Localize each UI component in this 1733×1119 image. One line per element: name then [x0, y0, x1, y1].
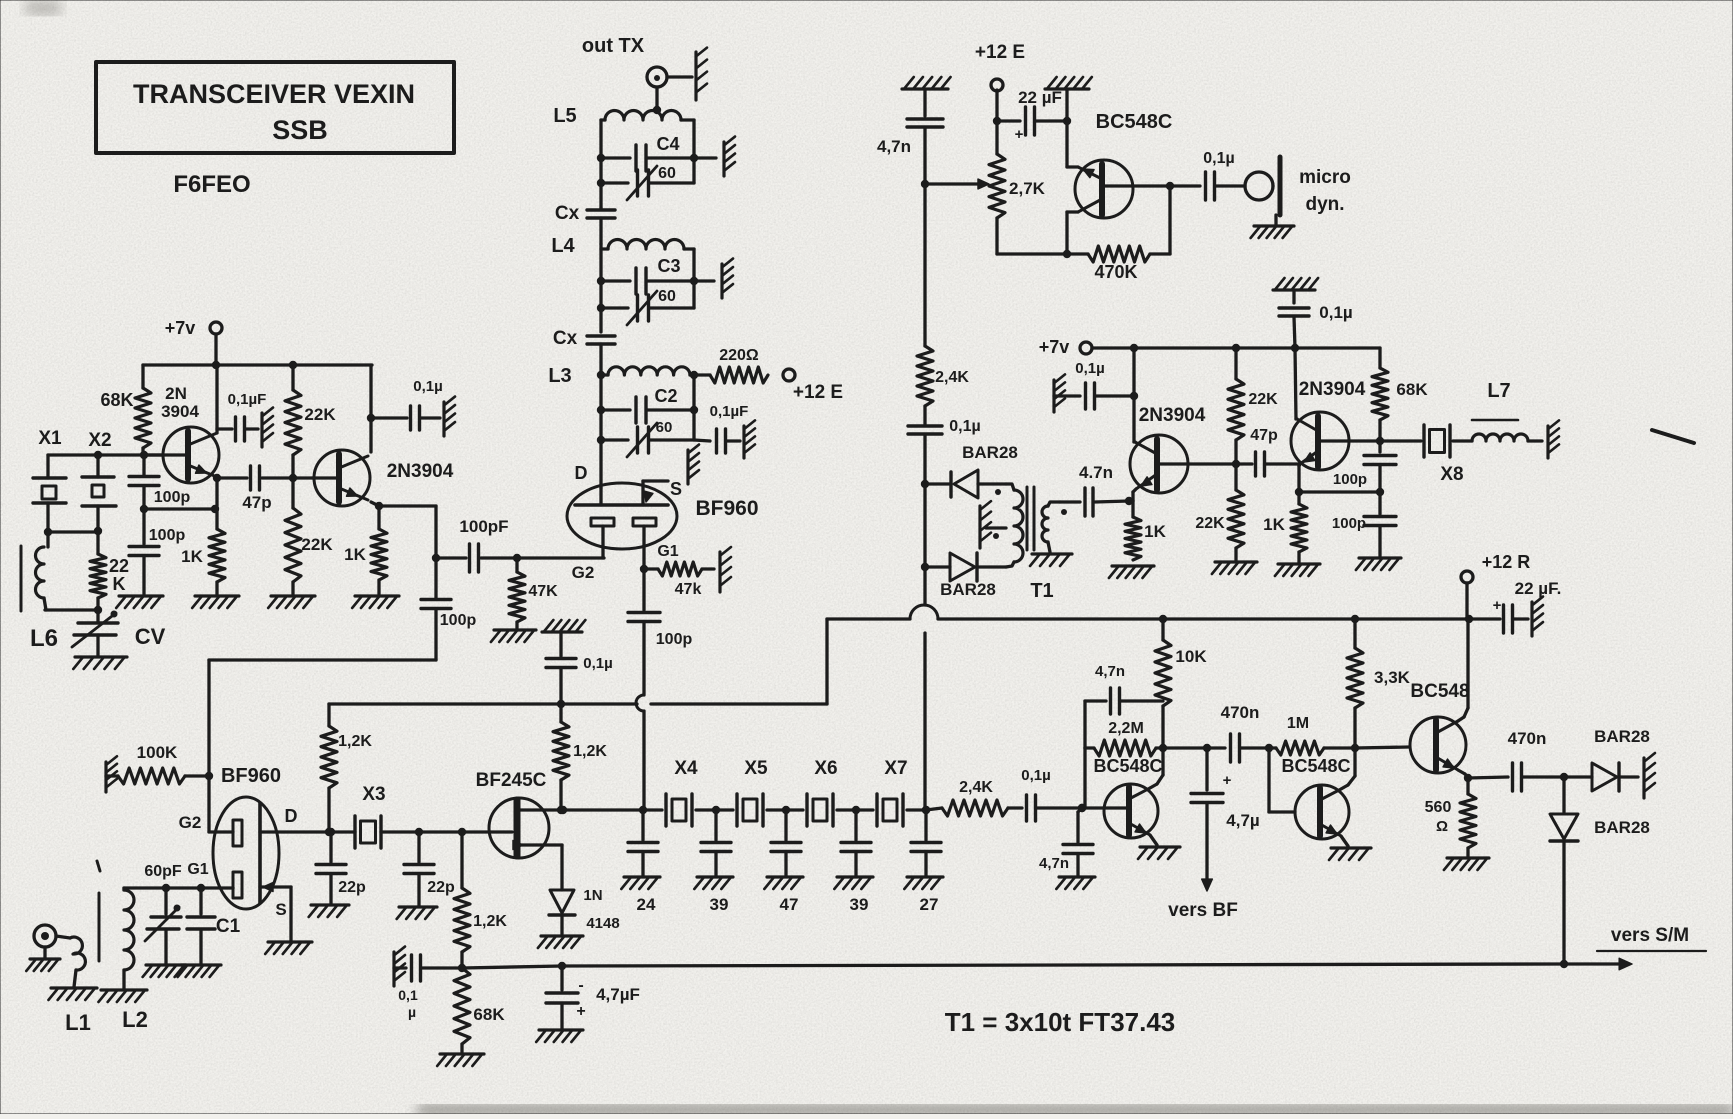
svg-text:L3: L3	[548, 365, 571, 387]
svg-text:2,7K: 2,7K	[1009, 179, 1046, 198]
svg-text:BAR28: BAR28	[1594, 727, 1650, 746]
transistor Q9 BC548C if	[1093, 756, 1162, 838]
capacitor 4,7uF	[536, 966, 640, 1042]
wire Q6 collector	[1063, 212, 1078, 258]
capacitor 39 shunt b	[834, 810, 873, 914]
resistor 1,2K rx	[321, 704, 372, 836]
resistor 68K rx	[437, 968, 505, 1066]
svg-text:BAR28: BAR28	[962, 443, 1018, 462]
resistor 22K bfo up	[1228, 348, 1278, 464]
tank right rail L5	[690, 120, 698, 183]
svg-text:X5: X5	[744, 758, 768, 779]
svg-text:+: +	[576, 1003, 585, 1020]
U1 drain lead	[599, 488, 602, 505]
terminal +7v O	[1039, 337, 1092, 357]
terminal +12R	[1461, 552, 1530, 619]
svg-text:+7v: +7v	[1039, 337, 1070, 357]
svg-text:3904: 3904	[161, 402, 199, 421]
crystal X1	[33, 455, 66, 536]
wire Q7 collector	[1130, 344, 1138, 442]
crystal X5	[712, 758, 786, 826]
capacitor 0,1u rx	[394, 947, 462, 1020]
resistor 10K	[1155, 619, 1207, 752]
label 60pF	[144, 863, 182, 880]
resistor 2,2M	[1085, 720, 1163, 756]
transistor Q10 BC548C af	[1281, 756, 1350, 839]
svg-text:0,1: 0,1	[398, 987, 418, 1003]
svg-text:K: K	[113, 574, 126, 594]
wire terminal to gnd	[667, 48, 707, 100]
transformer T1 tap	[980, 501, 1006, 548]
wire g1 cap hop	[636, 695, 644, 810]
trimmer 60 c4	[601, 165, 694, 200]
svg-text:560: 560	[1425, 799, 1452, 816]
svg-text:100p: 100p	[154, 489, 191, 506]
capacitor 47p bfo	[1236, 427, 1299, 476]
wire Q2 emitter	[371, 502, 383, 529]
svg-text:470n: 470n	[1221, 703, 1260, 722]
svg-text:4,7n: 4,7n	[1095, 663, 1125, 680]
wire Q1 collector	[215, 365, 218, 433]
svg-text:39: 39	[710, 895, 729, 914]
svg-text:+: +	[1223, 772, 1232, 789]
wire to TX mixer G2	[517, 556, 604, 559]
svg-text:+12 E: +12 E	[793, 382, 843, 403]
capacitor 47 shunt	[764, 810, 803, 914]
svg-text:47K: 47K	[528, 583, 558, 600]
wire C4 gnd	[694, 137, 735, 176]
svg-text:S: S	[275, 900, 286, 919]
transformer T1 core	[1027, 487, 1034, 550]
resistor 22K lower q2	[268, 478, 333, 608]
capacitor 47p coupling	[217, 466, 312, 512]
capacitor 100p feedback1	[129, 455, 190, 513]
terminal +12E tx	[783, 369, 843, 403]
svg-text:0,1µ: 0,1µ	[1319, 303, 1352, 322]
svg-text:G2: G2	[179, 813, 202, 832]
svg-text:vers BF: vers BF	[1168, 900, 1238, 921]
mosfet U1 BF960 tx	[567, 463, 759, 549]
inductor L6	[30, 532, 58, 652]
Q5 source wire	[513, 841, 562, 889]
Q5 drain wire	[520, 806, 647, 814]
resistor 1K q1	[181, 529, 239, 608]
capacitor 100p fb1	[1333, 441, 1396, 496]
wire base Q1	[48, 451, 162, 459]
resistor 1,2K det	[553, 704, 607, 814]
capacitor 470n b	[1468, 729, 1568, 791]
svg-text:X6: X6	[814, 758, 837, 779]
terminal +12E bfo	[975, 42, 1025, 125]
wire Q9 emitter gnd	[1138, 835, 1180, 859]
transistor Q6 BC548C mic	[1075, 111, 1172, 218]
svg-text:68K: 68K	[1396, 380, 1428, 399]
svg-text:0,1µF: 0,1µF	[228, 391, 267, 408]
resistor 2,4K if	[926, 779, 1008, 816]
resistor 220ohm	[694, 347, 768, 383]
tank left rail	[597, 120, 605, 208]
wire C3 gnd	[694, 259, 733, 298]
svg-text:C3: C3	[657, 256, 680, 276]
svg-text:+7v: +7v	[165, 318, 196, 338]
wire lo to rx mixer	[205, 660, 436, 832]
diode D3 BAR28	[1564, 727, 1655, 798]
resistor 3,3K	[1347, 619, 1411, 748]
crystal X7	[852, 758, 926, 826]
capacitor 0,1u bfo2	[1054, 360, 1134, 412]
svg-text:3,3K: 3,3K	[1374, 668, 1411, 687]
svg-text:22 µF: 22 µF	[1018, 88, 1062, 107]
svg-text:X7: X7	[884, 758, 907, 779]
svg-text:470K: 470K	[1094, 262, 1137, 282]
wire Q2 out	[379, 506, 440, 562]
wire Q11 collector	[1458, 619, 1468, 721]
wire Q9 collector	[1150, 748, 1163, 788]
svg-text:4148: 4148	[586, 915, 619, 932]
capacitor 22p b	[397, 828, 455, 919]
crystal X3	[331, 784, 419, 848]
svg-text:0,1µ: 0,1µ	[1203, 150, 1234, 167]
wire Q2 base	[312, 476, 339, 479]
svg-text:2N3904: 2N3904	[1139, 405, 1206, 426]
trimmer 60 c3	[601, 288, 694, 325]
svg-text:4,7µ: 4,7µ	[1226, 811, 1259, 830]
wire bfo vert 2	[922, 567, 930, 814]
svg-text:4,7n: 4,7n	[877, 137, 911, 156]
label rx G1	[187, 861, 208, 878]
svg-text:60: 60	[658, 288, 676, 305]
svg-text:0,1µ: 0,1µ	[1021, 767, 1051, 784]
svg-text:BC548C: BC548C	[1281, 756, 1350, 776]
capacitor 22p a	[309, 832, 366, 917]
svg-text:vers S/M: vers S/M	[1611, 925, 1689, 946]
svg-text:+12 E: +12 E	[975, 42, 1025, 63]
svg-text:L2: L2	[122, 1007, 148, 1032]
svg-text:T1 = 3x10t FT37.43: T1 = 3x10t FT37.43	[945, 1007, 1176, 1037]
svg-text:+12 R: +12 R	[1482, 552, 1531, 572]
svg-text:+: +	[1493, 597, 1502, 614]
wire q11 base	[1355, 747, 1409, 748]
capacitor Cx2	[553, 328, 615, 372]
wire Q10 collector	[1341, 748, 1355, 789]
wire Q8 out	[1320, 437, 1384, 445]
wire X1-X2 bottom	[48, 530, 98, 533]
U2 source lead	[260, 883, 312, 955]
U2 gate2 electrode	[179, 813, 242, 846]
svg-text:22K: 22K	[1195, 515, 1225, 532]
svg-text:L7: L7	[1487, 380, 1510, 402]
resistor 22K bfo dn	[1195, 464, 1257, 574]
svg-text:60pF: 60pF	[144, 863, 182, 880]
capacitor 100pF output	[436, 517, 521, 572]
wire Q6 emitter corner	[1067, 165, 1078, 168]
transformer T1 primary	[993, 484, 1023, 567]
core line L1L2	[97, 861, 100, 961]
svg-text:2,2M: 2,2M	[1108, 720, 1144, 737]
crystal X4	[643, 758, 716, 826]
wire Q9 base	[1082, 806, 1129, 809]
svg-text:100p: 100p	[656, 631, 693, 648]
resistor 1M	[1269, 715, 1359, 755]
U1 gate1 electrode	[633, 518, 679, 573]
capacitor 24 shunt	[621, 810, 660, 914]
svg-text:BF245C: BF245C	[476, 770, 547, 791]
antenna input	[26, 925, 60, 971]
svg-text:L5: L5	[553, 105, 576, 127]
svg-text:24: 24	[637, 895, 656, 914]
svg-text:68K: 68K	[100, 390, 133, 410]
diode D2 BAR28	[925, 553, 1006, 599]
svg-text:BC548: BC548	[1410, 681, 1469, 702]
svg-text:T1: T1	[1030, 580, 1053, 602]
svg-text:C4: C4	[656, 134, 679, 154]
svg-text:BAR28: BAR28	[1594, 818, 1650, 837]
wire mic emitter	[1065, 121, 1068, 167]
transistor Q11 BC548	[1410, 681, 1470, 773]
capacitor 4,7n t1	[1060, 463, 1133, 516]
resistor 47K g1	[644, 547, 731, 598]
svg-text:100p: 100p	[1333, 471, 1367, 488]
bus wire B	[827, 605, 1500, 623]
label T1 formula	[945, 1007, 1176, 1037]
bus wire A	[329, 700, 827, 708]
svg-text:1K: 1K	[181, 547, 203, 566]
label F6FEO	[173, 171, 250, 198]
transformer T1 secondary	[1030, 502, 1072, 602]
transistor Q8 2N3904 bfo2	[1291, 379, 1366, 470]
resistor 68K bfo	[1372, 348, 1428, 441]
tank left rail 2	[597, 244, 605, 332]
svg-text:-: -	[578, 977, 583, 994]
resistor 1K bfo2	[1263, 492, 1320, 576]
svg-text:60: 60	[656, 419, 673, 436]
ground top bfo	[902, 77, 951, 116]
svg-text:X1: X1	[38, 428, 62, 449]
resistor 470K	[1067, 186, 1170, 282]
bus wire C	[462, 960, 1568, 970]
resistor 1,2K gate	[454, 832, 507, 972]
wire Q6 base	[1104, 182, 1174, 190]
wire 100p tap bfo	[1299, 490, 1380, 493]
label X1	[38, 428, 62, 449]
svg-text:1K: 1K	[1263, 515, 1285, 534]
svg-text:470n: 470n	[1508, 729, 1547, 748]
resistor 2,4K bfo	[917, 184, 969, 406]
svg-text:47k: 47k	[675, 581, 702, 598]
svg-text:X2: X2	[88, 430, 111, 451]
crystal X8	[1380, 425, 1472, 485]
svg-text:2N3904: 2N3904	[387, 461, 454, 482]
svg-text:micro: micro	[1299, 167, 1351, 188]
capacitor 0,1uF c2	[694, 403, 755, 458]
trimmer 60pF rx	[143, 888, 186, 977]
inductor L1	[48, 936, 97, 1035]
title text TRANSCEIVER VEXIN	[133, 79, 415, 109]
capacitor 0,1u top	[1273, 278, 1353, 348]
svg-text:C1: C1	[216, 916, 241, 937]
svg-text:TRANSCEIVER VEXIN: TRANSCEIVER VEXIN	[133, 79, 415, 109]
svg-text:1K: 1K	[344, 545, 366, 564]
resistor 1K bfo1	[1109, 501, 1167, 578]
svg-text:100pF: 100pF	[459, 517, 508, 536]
tank left rail 3	[597, 372, 605, 488]
terminal +7v	[165, 318, 222, 338]
wire pot to collector node	[997, 252, 1067, 255]
resistor 560	[1425, 778, 1489, 870]
svg-text:2N3904: 2N3904	[1299, 379, 1366, 400]
svg-text:Ω: Ω	[1436, 818, 1448, 835]
svg-text:X4: X4	[674, 758, 698, 779]
svg-text:1,2K: 1,2K	[473, 913, 507, 930]
svg-text:G1: G1	[187, 861, 208, 878]
svg-text:µ: µ	[408, 1004, 416, 1020]
wire Q1 emitter	[213, 474, 221, 529]
svg-text:D: D	[575, 463, 588, 483]
capacitor 0,1u q2	[371, 378, 455, 436]
title box	[96, 62, 454, 153]
svg-text:D: D	[285, 806, 298, 826]
bus wire A corner	[825, 619, 828, 704]
variable capacitor CV	[72, 610, 166, 669]
crystal X2	[82, 455, 116, 554]
wire terminal down	[653, 87, 661, 114]
capacitor Cx1	[555, 203, 615, 244]
U2 drain lead	[260, 806, 335, 836]
resistor 22K upper q2	[285, 365, 336, 478]
inductor L2	[98, 888, 147, 1032]
svg-text:4,7µF: 4,7µF	[596, 985, 640, 1004]
inductor L5	[553, 105, 694, 127]
wire 100p tap to emitter	[144, 505, 219, 513]
resistor 68K	[100, 365, 151, 455]
rail +7v bfo	[1092, 344, 1380, 352]
svg-text:X3: X3	[362, 784, 385, 805]
capacitor 22uF bfo	[997, 88, 1071, 143]
svg-text:39: 39	[850, 895, 869, 914]
capacitor C1	[178, 888, 241, 977]
svg-text:0,1µF: 0,1µF	[710, 403, 749, 420]
svg-text:47p: 47p	[242, 493, 271, 512]
wire Q2 collector	[367, 365, 375, 452]
capacitor 4,7n bfo	[877, 119, 943, 188]
core line L6	[20, 546, 23, 611]
mosfet U2 BF960 rx	[213, 765, 281, 909]
svg-text:68K: 68K	[473, 1005, 505, 1024]
svg-text:2,4K: 2,4K	[959, 779, 993, 796]
svg-text:L6: L6	[30, 625, 58, 652]
capacitor 4,7n fb	[1085, 663, 1163, 748]
svg-text:dyn.: dyn.	[1305, 194, 1344, 215]
vers S/M arrow	[1564, 925, 1706, 970]
svg-text:X8: X8	[1440, 464, 1463, 485]
terminal out TX	[647, 67, 667, 87]
inductor L3	[548, 365, 698, 387]
wire to pot arm	[925, 179, 989, 189]
wire L6 bottom	[45, 606, 102, 614]
resistor 22K vfo	[90, 554, 129, 610]
capacitor 0,1u mic	[1170, 150, 1245, 200]
wire bfo vert	[921, 484, 929, 571]
svg-text:+: +	[1015, 126, 1024, 143]
U1 source lead	[643, 445, 699, 505]
svg-text:0,1µ: 0,1µ	[413, 378, 443, 395]
svg-text:0,1µ: 0,1µ	[583, 655, 613, 672]
svg-text:S: S	[670, 479, 682, 499]
svg-text:10K: 10K	[1175, 647, 1207, 666]
svg-text:100K: 100K	[137, 743, 178, 762]
transistor Q2 2N3904	[314, 450, 454, 506]
capacitor 100p lo	[421, 558, 476, 660]
capacitor 100p g1	[628, 569, 692, 695]
svg-text:BF960: BF960	[695, 497, 758, 520]
wire x3 to gate	[419, 828, 512, 836]
U2 gate1 electrode	[233, 872, 242, 898]
inductor L4	[551, 235, 694, 257]
svg-text:100p: 100p	[440, 612, 477, 629]
svg-text:CV: CV	[135, 624, 166, 649]
transistor Q1 2N3904	[161, 384, 219, 483]
jfet Q5 BF245C	[476, 770, 549, 858]
capacitor 100p feedback2	[116, 509, 185, 608]
svg-text:G2: G2	[572, 563, 595, 582]
svg-text:4.7n: 4.7n	[1079, 463, 1113, 482]
svg-text:1K: 1K	[1144, 522, 1166, 541]
capacitor C4	[601, 134, 694, 171]
svg-text:out TX: out TX	[582, 35, 645, 57]
svg-text:BC548C: BC548C	[1093, 756, 1162, 776]
svg-text:1M: 1M	[1287, 715, 1309, 732]
svg-text:4,7n: 4,7n	[1039, 855, 1069, 872]
resistor 47K tx g2	[491, 558, 558, 642]
svg-text:22 µF.: 22 µF.	[1515, 579, 1562, 598]
resistor 1K q2	[344, 529, 399, 608]
microphone	[1245, 157, 1351, 238]
svg-text:47: 47	[780, 895, 799, 914]
svg-text:100p: 100p	[149, 527, 186, 544]
tank right rail L3	[690, 375, 698, 440]
diode 1N4148	[538, 887, 620, 948]
svg-text:1,2K: 1,2K	[573, 743, 607, 760]
capacitor 39 shunt a	[694, 810, 733, 914]
svg-text:22K: 22K	[301, 535, 333, 554]
wire Q10 emitter gnd	[1329, 836, 1371, 860]
U1 gate2 electrode	[572, 518, 614, 582]
svg-text:47p: 47p	[1250, 427, 1278, 444]
svg-text:22K: 22K	[304, 405, 336, 424]
wire Q1 base	[144, 453, 188, 456]
svg-text:Cx: Cx	[555, 203, 580, 224]
wire q10 base	[1269, 748, 1295, 812]
svg-text:C2: C2	[654, 386, 677, 406]
svg-text:SSB: SSB	[272, 115, 328, 145]
capacitor 0,1u bfo	[908, 406, 981, 488]
svg-text:22: 22	[109, 556, 129, 576]
capacitor 4,7u af	[1168, 744, 1260, 921]
capacitor 0,1u if	[1008, 767, 1086, 821]
diode D1 BAR28	[925, 443, 1018, 498]
svg-text:27: 27	[920, 895, 939, 914]
svg-text:22p: 22p	[427, 879, 455, 896]
svg-text:1N: 1N	[583, 887, 602, 904]
wire rx g1	[124, 884, 233, 892]
svg-text:L1: L1	[65, 1010, 91, 1035]
capacitor 0,1u det	[542, 620, 613, 704]
wire base vert q9	[1078, 748, 1086, 812]
svg-text:2,4K: 2,4K	[935, 369, 969, 386]
crystal X6	[782, 758, 856, 826]
svg-text:1,2K: 1,2K	[338, 733, 372, 750]
label out TX	[582, 35, 645, 57]
